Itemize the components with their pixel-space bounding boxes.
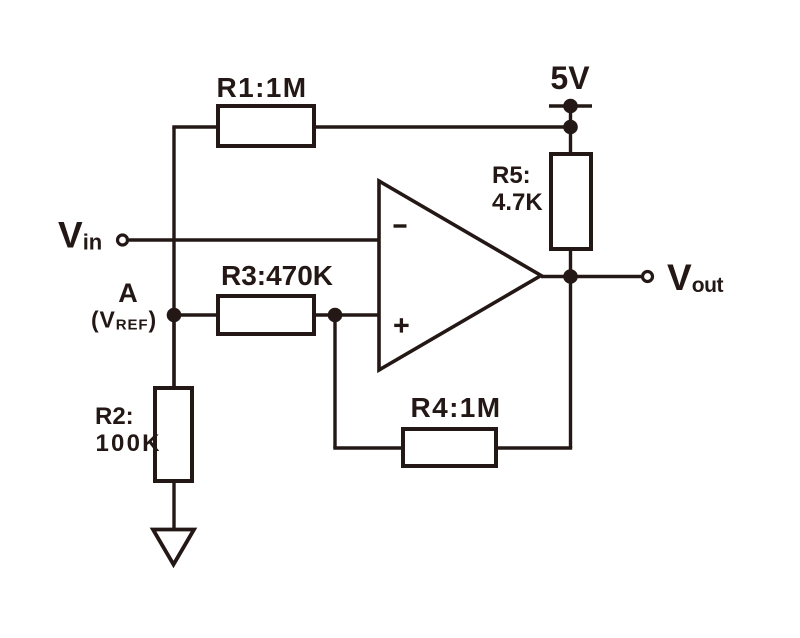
op-amp plus sign xyxy=(394,324,408,327)
terminal Vin open circle xyxy=(118,235,128,245)
junction dot 5V/R1 node xyxy=(563,120,578,135)
junction dot plus input node xyxy=(328,308,343,323)
svg-text:R1:1M: R1:1M xyxy=(216,72,307,103)
ground symbol xyxy=(153,530,194,565)
wire R5 bottom to output node xyxy=(569,249,572,277)
svg-text:4.7K: 4.7K xyxy=(492,189,543,216)
resistor R4 xyxy=(403,429,496,466)
node A junction dot xyxy=(167,308,182,323)
svg-text:R3:470K: R3:470K xyxy=(221,260,333,291)
resistor R5 xyxy=(551,154,591,249)
svg-text:R5:: R5: xyxy=(492,162,531,189)
wire feedback bottom left to R4 xyxy=(333,446,403,449)
wire output bus vertical xyxy=(569,277,572,448)
wire node A to R3 xyxy=(174,313,218,316)
terminal Vout open circle xyxy=(643,272,653,282)
power rail 5V bar xyxy=(549,104,592,108)
resistor R1 xyxy=(218,106,314,146)
wire R3 to plus node xyxy=(314,313,380,316)
wire R1 row horizontal left xyxy=(172,125,218,128)
svg-text:100K: 100K xyxy=(96,430,162,457)
op-amp U1 triangle xyxy=(379,181,541,370)
resistor R2 xyxy=(155,388,192,481)
wire op-amp output xyxy=(541,275,641,278)
wire 5V vertical down to R5 xyxy=(569,106,572,154)
wire Vin horizontal xyxy=(129,238,380,241)
svg-text:R4:1M: R4:1M xyxy=(410,392,501,423)
junction dot on 5V bar xyxy=(563,99,578,114)
wire R4 to output bus xyxy=(496,446,572,449)
wire R1 row horizontal right to 5V node xyxy=(314,125,571,128)
svg-text:5V: 5V xyxy=(550,60,590,96)
resistor R3 xyxy=(218,296,314,334)
wire R2 to ground xyxy=(172,481,175,531)
svg-text:R2:: R2: xyxy=(95,403,134,430)
junction dot output node xyxy=(563,269,578,284)
op-amp minus sign xyxy=(394,224,407,227)
wire node A down to R2 xyxy=(172,315,175,388)
wire feedback vertical from plus node xyxy=(333,315,336,448)
svg-text:A: A xyxy=(118,278,138,308)
wire left bus vertical (node A to R1 corner) xyxy=(172,127,175,388)
